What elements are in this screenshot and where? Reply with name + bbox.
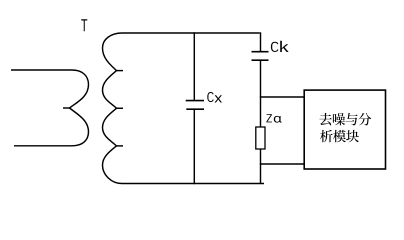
wire Cx vertical lower bbox=[193, 110, 195, 184]
resistor Za bbox=[256, 127, 265, 149]
wire primary top lead bbox=[11, 69, 72, 71]
box text char "析" bbox=[320, 130, 333, 142]
label Ck bbox=[271, 42, 278, 52]
wire resistor bottom to bottom bus bbox=[260, 149, 262, 184]
box text char "分" bbox=[358, 113, 371, 126]
capacitor Cx bottom plate bbox=[186, 108, 204, 110]
wire Ck top corner drop bbox=[260, 32, 262, 51]
capacitor Ck bottom plate bbox=[252, 59, 269, 61]
label Za bbox=[266, 114, 272, 122]
secondary cusp tick 1 bbox=[116, 70, 123, 72]
wire Ck bottom to resistor bbox=[260, 61, 262, 127]
module box (denoise & analysis) bbox=[304, 90, 385, 169]
box text char "噪" bbox=[333, 113, 345, 125]
capacitor Cx top plate bbox=[186, 100, 204, 102]
wire primary bottom lead bbox=[14, 145, 72, 147]
capacitor Ck top plate bbox=[252, 51, 269, 53]
wire node to box (lower) bbox=[260, 163, 305, 165]
box text char "与" bbox=[346, 113, 358, 126]
box text char "模" bbox=[333, 130, 346, 142]
secondary cusp tick 3 bbox=[116, 145, 123, 147]
wire node to box (upper) bbox=[260, 96, 305, 98]
primary winding cusp tick bbox=[63, 107, 70, 109]
transformer T label bbox=[81, 19, 87, 31]
box text char "块" bbox=[346, 130, 359, 142]
wire top bus (secondary top to Ck) bbox=[122, 32, 260, 34]
box text char "去" bbox=[319, 113, 331, 125]
transformer T secondary winding (4 bumps, left-bulging) bbox=[103, 33, 123, 184]
label Cx bbox=[207, 92, 213, 102]
wire bottom bus (secondary bottom to Za) bbox=[122, 183, 264, 185]
secondary cusp tick 2 bbox=[116, 107, 123, 109]
transformer T primary winding (2 bumps, right-bulging) bbox=[70, 70, 89, 146]
wire Cx vertical upper bbox=[193, 32, 195, 100]
